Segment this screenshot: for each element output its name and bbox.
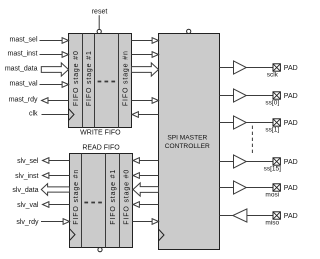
svg-text:reset: reset (92, 8, 108, 15)
wire slv_rdy into READ FIFO (41, 221, 64, 223)
buffer sclk (234, 61, 247, 74)
wire mosi to pad (246, 187, 273, 189)
pad symbol sclk (273, 64, 280, 71)
wire slv_sel out of READ FIFO (49, 160, 70, 162)
buffer ss[15] (234, 155, 247, 168)
divider (write fifo stage boundary) (82, 34, 84, 128)
block SPI MASTER CONTROLLER (159, 34, 220, 250)
divider (read fifo stage boundary) (81, 154, 83, 248)
arrowhead slv_val at read fifo (points left) (133, 202, 139, 208)
clock wedge pin (read fifo clk) (70, 229, 76, 241)
arrowhead mast_sel (points right) (62, 38, 68, 44)
block WRITE FIFO (69, 34, 132, 128)
svg-text:PAD: PAD (284, 159, 298, 166)
svg-text:mast_rdy: mast_rdy (9, 97, 38, 104)
clock wedge pin (write fifo clk) (69, 109, 75, 121)
svg-text:PAD: PAD (284, 120, 298, 127)
arrowhead mast_rdy (points left) (42, 98, 48, 104)
svg-text:ss[0]: ss[0] (265, 100, 279, 107)
divider (write fifo stage boundary) (118, 34, 120, 128)
wire ss[15] to pad (246, 161, 273, 163)
wire slv_val out of READ FIFO (49, 204, 70, 206)
wire mast_inst into WRITE FIFO (40, 54, 63, 56)
svg-text:sclk: sclk (267, 72, 279, 79)
arrowhead mast_inst (points right) (62, 52, 68, 58)
arrowhead slv_inst (points left) (43, 173, 49, 179)
svg-text:PAD: PAD (284, 65, 298, 72)
arrowhead mast_sel (fifo to spi) (152, 38, 158, 44)
svg-text:PAD: PAD (284, 213, 298, 220)
svg-text:slv_sel: slv_sel (17, 158, 39, 165)
wire mosi from SPI (220, 187, 234, 189)
wire fifo ready (spi to write fifo) (138, 114, 159, 116)
svg-text:SPI MASTER: SPI MASTER (167, 134, 207, 141)
wire ss[0] from SPI (220, 95, 234, 97)
clock wedge pin (spi clk) (159, 229, 165, 241)
wire mast_sel (fifo to spi) (132, 40, 153, 42)
wire slv_sel (spi to read fifo) (139, 160, 159, 162)
svg-text:mast_sel: mast_sel (9, 37, 37, 44)
svg-text:FIFO stage #0: FIFO stage #0 (73, 50, 80, 106)
svg-text:mosi: mosi (265, 192, 279, 199)
wire slv_rdy (read fifo to spi) (133, 221, 153, 223)
arrowhead mast_inst (fifo to spi) (152, 52, 158, 58)
divider (read fifo stage boundary) (119, 154, 121, 248)
wire mast_val into WRITE FIFO (40, 84, 63, 86)
wire ss[1] to pad (246, 122, 273, 124)
wire mast_sel into WRITE FIFO (40, 40, 63, 42)
ellipsis dashes (write fifo) (98, 81, 116, 83)
svg-text:clk: clk (29, 111, 38, 118)
svg-text:mast_inst: mast_inst (8, 51, 38, 58)
svg-text:FIFO stage #n: FIFO stage #n (73, 169, 80, 225)
svg-text:FIFO stage #1: FIFO stage #1 (86, 50, 93, 106)
pad symbol ss[0] (273, 92, 280, 99)
arrowhead slv_val (points left) (43, 202, 49, 208)
buffer mosi (234, 181, 247, 194)
arrowhead fifo ready (points left) (132, 112, 138, 118)
wire clk into WRITE FIFO (42, 114, 69, 116)
svg-text:READ FIFO: READ FIFO (82, 144, 120, 151)
wire mast_rdy out of WRITE FIFO (48, 100, 69, 102)
svg-text:FIFO stage #n: FIFO stage #n (123, 50, 130, 106)
reset bubble on WRITE FIFO (97, 29, 101, 33)
wire ss[0] to pad (246, 95, 273, 97)
bus wire slv_data (spi to read fifo) (133, 183, 159, 196)
svg-text:WRITE FIFO: WRITE FIFO (80, 130, 121, 137)
bus wire mast_data (fifo to spi) (132, 63, 159, 76)
svg-text:CONTROLLER: CONTROLLER (165, 143, 210, 150)
buffer miso (233, 209, 247, 222)
reset bubble on SPI MASTER CONTROLLER (187, 29, 191, 33)
ellipsis dashes (read fifo) (84, 202, 102, 204)
svg-text:miso: miso (265, 220, 279, 227)
wire reset (98, 15, 100, 29)
arrowhead slv_rdy (points right) (63, 219, 69, 225)
svg-text:ss[15]: ss[15] (264, 166, 282, 173)
arrowhead slv_rdy at spi (points right) (152, 219, 158, 225)
divider (write fifo stage boundary) (94, 34, 96, 128)
wire ss[1] from SPI (220, 122, 234, 124)
svg-text:slv_inst: slv_inst (15, 173, 38, 180)
svg-text:mast_val: mast_val (9, 81, 37, 88)
arrowhead fifo valid (152, 98, 158, 104)
bus wire slv_data out of READ FIFO (41, 184, 69, 196)
svg-text:slv_rdy: slv_rdy (16, 219, 39, 226)
arrowhead slv_sel at read fifo (points left) (133, 158, 139, 164)
wire miso to pad (247, 215, 273, 217)
reset bubble on READ FIFO (98, 248, 102, 252)
svg-text:ss[1]: ss[1] (265, 127, 279, 134)
pad symbol ss[1] (273, 119, 280, 126)
wire slv_inst out of READ FIFO (49, 175, 70, 177)
wire slv_val (spi to read fifo) (139, 204, 159, 206)
pad symbol miso (273, 212, 280, 219)
svg-text:PAD: PAD (284, 93, 298, 100)
svg-text:FIFO stage #1: FIFO stage #1 (110, 169, 117, 225)
arrowhead slv_sel (points left) (43, 158, 49, 164)
divider (read fifo stage boundary) (105, 154, 107, 248)
svg-text:PAD: PAD (284, 185, 298, 192)
svg-text:mast_data: mast_data (5, 66, 38, 73)
wire miso from SPI (220, 215, 233, 217)
block READ FIFO (70, 154, 133, 248)
wire sclk from SPI (220, 67, 234, 69)
bus wire mast_data into WRITE FIFO (41, 63, 68, 76)
wire sclk to pad (246, 67, 273, 69)
pad symbol mosi (273, 184, 280, 191)
ellipsis dashed line (ss[2]..ss[14]) (251, 126, 253, 155)
buffer ss[0] (234, 89, 247, 102)
arrowhead slv_inst at read fifo (points left) (133, 173, 139, 179)
svg-text:FIFO stage #0: FIFO stage #0 (124, 169, 131, 225)
svg-text:slv_val: slv_val (17, 202, 39, 209)
buffer ss[1] (234, 116, 247, 129)
svg-text:slv_data: slv_data (12, 187, 38, 194)
pad symbol ss[15] (273, 158, 280, 165)
wire mast_inst (fifo to spi) (132, 54, 153, 56)
arrowhead mast_val (points right) (62, 82, 68, 88)
wire fifo valid (write fifo to spi) (132, 100, 153, 102)
wire ss[15] from SPI (220, 161, 234, 163)
wire slv_inst (spi to read fifo) (139, 175, 159, 177)
